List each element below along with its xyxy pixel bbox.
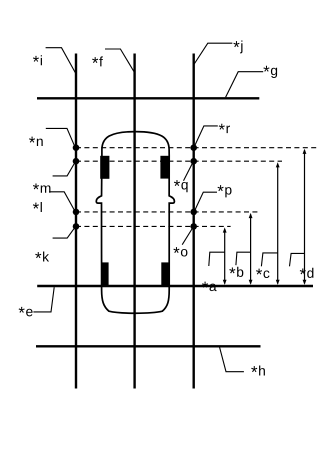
dashed datum line 4 <box>76 225 231 227</box>
leader *p <box>194 192 217 211</box>
measuring point dot left 2 <box>73 158 80 165</box>
label *q <box>174 180 188 192</box>
measuring point dot left 4 <box>73 223 80 230</box>
leader *r <box>194 126 218 147</box>
leader *k <box>53 227 76 239</box>
vertical grid line left (*i) <box>75 54 77 389</box>
measuring point dot left 1 <box>73 144 80 151</box>
measuring point dot right 3 <box>190 209 197 216</box>
label *n <box>29 137 43 146</box>
label *m <box>33 183 50 192</box>
leader *o <box>182 227 193 245</box>
horizontal base line (*e / *a) <box>37 285 313 288</box>
leader *f <box>105 49 134 72</box>
vertical grid line right (*j) <box>192 54 194 389</box>
label *a <box>202 282 217 291</box>
vertical grid line center (*f) <box>133 54 135 389</box>
label *g <box>263 66 277 78</box>
wheel front-left <box>100 156 109 179</box>
dimension arrow (third) <box>276 162 280 285</box>
label *f <box>92 56 103 66</box>
wheel rear-left <box>101 262 108 286</box>
label *b <box>229 267 243 277</box>
bracket leader *b <box>236 252 251 265</box>
label *o <box>173 247 187 256</box>
leader *q <box>184 162 194 181</box>
label *k <box>35 252 49 262</box>
label *e <box>19 307 33 316</box>
measuring point dot right 4 <box>190 223 197 230</box>
label *h <box>251 366 265 376</box>
label *d <box>300 268 314 278</box>
wheel front-right <box>160 156 169 179</box>
dashed datum line 3 <box>76 211 261 213</box>
car body outline with mirrors <box>96 132 174 314</box>
dimension arrow *c <box>249 213 253 285</box>
label *l <box>33 202 42 212</box>
leader *h <box>220 347 244 371</box>
dimension arrow *d <box>303 149 307 285</box>
leader *g <box>226 72 264 98</box>
dashed datum line 2 <box>76 160 282 162</box>
leader *i <box>46 48 76 73</box>
bracket leader *d <box>290 253 305 266</box>
leader *e <box>33 287 54 312</box>
leader *n <box>46 128 76 147</box>
leader *j <box>194 43 232 64</box>
dashed datum line 1 <box>76 147 319 149</box>
leader *m <box>53 162 76 176</box>
measuring point dot left 3 <box>73 209 80 216</box>
label *j <box>233 41 242 54</box>
leader *l <box>49 192 75 212</box>
label *r <box>219 124 230 133</box>
label *p <box>218 185 232 197</box>
dimension arrow *b <box>223 227 227 285</box>
wheel rear-right <box>161 262 168 286</box>
bracket leader *a <box>209 252 225 266</box>
label *c <box>256 269 269 278</box>
horizontal grid line bottom (*h) <box>36 345 261 347</box>
horizontal grid line top (*g) <box>37 97 259 99</box>
label *i <box>33 55 42 65</box>
measuring point dot right 1 <box>190 144 197 151</box>
bracket leader *c <box>261 253 277 266</box>
measuring point dot right 2 <box>190 158 197 165</box>
